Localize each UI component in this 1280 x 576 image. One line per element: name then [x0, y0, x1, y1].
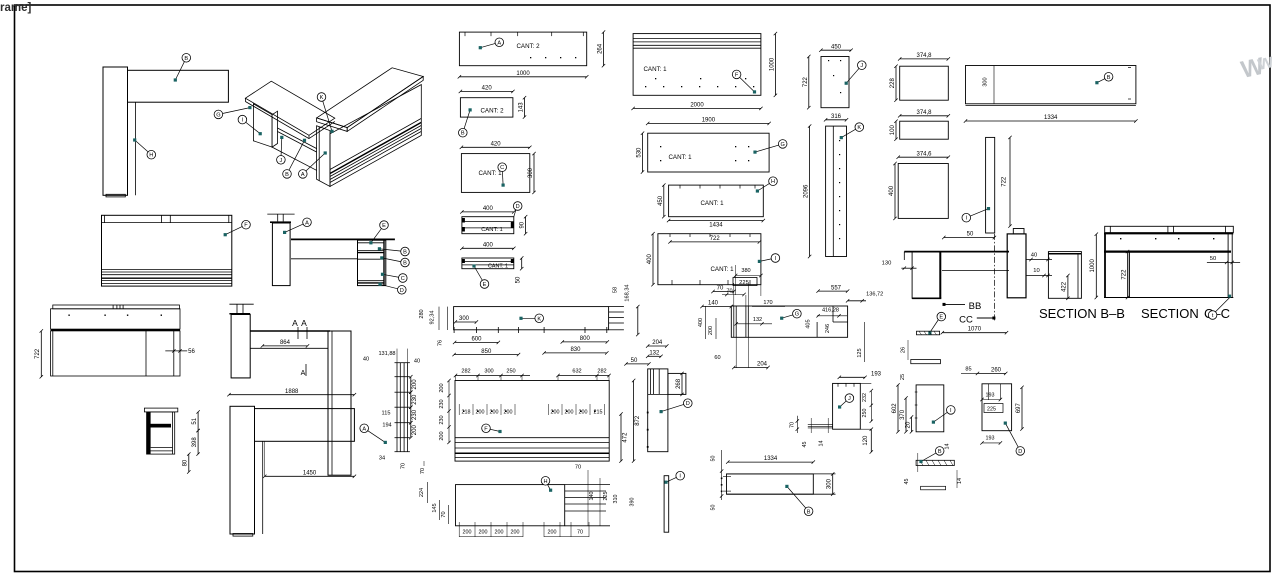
svg-text:200: 200 — [548, 530, 557, 536]
svg-text:850: 850 — [481, 349, 492, 355]
view V8 side view with section A-A — [229, 303, 253, 305]
svg-text:200: 200 — [490, 410, 499, 416]
svg-text:C: C — [500, 165, 504, 171]
svg-text:B: B — [461, 131, 465, 137]
svg-text:100: 100 — [890, 125, 896, 136]
svg-text:1000: 1000 — [769, 57, 775, 71]
svg-text:602: 602 — [892, 403, 898, 414]
svg-text:200: 200 — [495, 530, 504, 536]
svg-text:143: 143 — [519, 102, 525, 113]
svg-text:CANT: 1: CANT: 1 — [478, 170, 502, 177]
view V13 thin strip — [664, 476, 669, 533]
svg-text:420: 420 — [482, 86, 493, 92]
svg-text:B: B — [938, 449, 942, 455]
svg-text:200: 200 — [412, 425, 418, 436]
panel H CANT:1 1434x450 — [669, 185, 764, 217]
thin bar piece below — [917, 331, 940, 335]
svg-text:530: 530 — [637, 147, 643, 158]
svg-text:70: 70 — [401, 463, 407, 469]
svg-text:200: 200 — [412, 379, 418, 390]
svg-text:722: 722 — [35, 348, 41, 359]
view V2 isometric reception desk — [245, 81, 334, 135]
view V5 rear elevation — [53, 305, 180, 309]
panel D CANT:1 400x90 — [462, 211, 514, 213]
panel K 316x2096 — [826, 119, 847, 121]
view V4 side elevation A — [267, 213, 294, 215]
svg-text:A: A — [301, 172, 305, 178]
svg-text:70: 70 — [789, 422, 795, 428]
svg-text:A: A — [497, 40, 501, 46]
svg-text:CANT: 2: CANT: 2 — [516, 43, 540, 50]
svg-text:230: 230 — [439, 415, 445, 424]
svg-text:1888: 1888 — [285, 389, 299, 395]
svg-text:300: 300 — [528, 167, 534, 178]
svg-text:10: 10 — [1033, 268, 1039, 274]
svg-text:697: 697 — [1016, 402, 1022, 413]
svg-text:374,8: 374,8 — [916, 110, 932, 116]
svg-text:K: K — [320, 95, 324, 101]
svg-text:D: D — [686, 401, 690, 407]
svg-text:70: 70 — [575, 465, 581, 471]
panel E CANT:1 400x50 — [462, 247, 514, 249]
svg-text:CC: CC — [959, 315, 973, 326]
svg-text:H: H — [149, 153, 153, 159]
svg-text:130: 130 — [882, 261, 892, 267]
svg-text:230: 230 — [412, 409, 418, 420]
svg-text:132: 132 — [753, 317, 762, 323]
svg-text:90: 90 — [520, 221, 526, 228]
svg-text:1000: 1000 — [516, 71, 530, 77]
panel A CANT:2 1000x264 — [459, 32, 586, 66]
svg-text:370: 370 — [900, 409, 906, 420]
svg-text:872: 872 — [635, 415, 641, 426]
view V9 section A-A piece — [396, 363, 398, 452]
svg-text:115: 115 — [382, 411, 391, 417]
svg-text:K: K — [857, 125, 861, 131]
svg-text:D: D — [1018, 449, 1022, 455]
svg-text:390: 390 — [630, 498, 636, 507]
svg-text:400: 400 — [483, 206, 494, 212]
svg-text:45: 45 — [904, 479, 910, 485]
svg-text:246: 246 — [825, 324, 831, 333]
panel 374,8 x 100 — [900, 115, 949, 117]
svg-text:125: 125 — [857, 348, 863, 357]
svg-text:300: 300 — [484, 369, 493, 375]
svg-text:140: 140 — [708, 301, 719, 307]
svg-text:225: 225 — [987, 407, 996, 413]
svg-text:rame]: rame] — [0, 2, 31, 14]
panel C CANT:1 420x300 — [461, 146, 529, 148]
svg-text:420: 420 — [491, 142, 502, 148]
thin bar piece B with hatch — [916, 460, 954, 465]
piece D rect with 697 dim — [982, 384, 1012, 431]
svg-text:193: 193 — [986, 436, 995, 442]
svg-text:45: 45 — [802, 442, 808, 448]
svg-text:800: 800 — [580, 336, 591, 342]
svg-text:200: 200 — [511, 530, 520, 536]
svg-text:398: 398 — [192, 437, 198, 448]
svg-text:14: 14 — [819, 441, 825, 447]
tall post with 722 dim — [986, 137, 995, 233]
svg-text:230: 230 — [412, 394, 418, 405]
svg-text:250: 250 — [862, 409, 868, 418]
svg-text:170: 170 — [763, 300, 772, 306]
svg-text:416,28: 416,28 — [822, 308, 839, 314]
svg-text:F: F — [484, 426, 488, 432]
svg-text:A: A — [305, 220, 309, 226]
svg-text:282: 282 — [461, 369, 470, 375]
svg-text:422: 422 — [1062, 281, 1068, 292]
view V6 cabinet section detail — [144, 408, 177, 412]
svg-text:25: 25 — [900, 374, 906, 380]
section C-C view — [1105, 226, 1234, 232]
view V1 L-shaped plan top-left — [103, 67, 128, 195]
svg-text:131,88: 131,88 — [378, 351, 395, 357]
svg-text:B: B — [184, 56, 188, 62]
view V15 piece G with many dims — [731, 306, 847, 337]
svg-text:2096: 2096 — [804, 184, 810, 198]
svg-text:G: G — [795, 312, 799, 318]
svg-text:200: 200 — [439, 431, 445, 440]
svg-text:C: C — [401, 276, 405, 282]
svg-text:B: B — [807, 509, 811, 515]
svg-text:B: B — [1107, 75, 1111, 81]
svg-text:J: J — [860, 63, 863, 69]
view V10 long panel K — [454, 307, 609, 330]
svg-text:450: 450 — [831, 44, 842, 50]
svg-text:400: 400 — [889, 185, 895, 196]
svg-text:50: 50 — [1210, 256, 1216, 262]
piece J with 193 232 250 dims — [833, 383, 861, 429]
svg-text:14: 14 — [944, 444, 950, 450]
svg-text:1334: 1334 — [1044, 115, 1058, 121]
svg-text:1434: 1434 — [709, 223, 723, 229]
svg-text:200: 200 — [504, 410, 513, 416]
view V12 panel H bottom — [456, 485, 565, 526]
svg-text:SECTION: SECTION — [1141, 306, 1199, 321]
svg-text:268: 268 — [676, 378, 682, 389]
svg-text:300: 300 — [827, 478, 833, 489]
svg-text:145: 145 — [432, 503, 438, 512]
view V11 wide panel F — [455, 381, 609, 462]
svg-text:CANT: 1: CANT: 1 — [700, 200, 724, 207]
svg-text:14: 14 — [957, 478, 963, 484]
svg-text:85: 85 — [965, 367, 971, 373]
svg-text:193: 193 — [871, 372, 882, 378]
svg-text:132: 132 — [649, 351, 660, 357]
svg-text:40: 40 — [1031, 253, 1037, 259]
svg-text:200: 200 — [476, 410, 485, 416]
svg-text:SECTION B–B: SECTION B–B — [1039, 306, 1125, 321]
svg-text:40: 40 — [414, 358, 420, 364]
svg-text:200: 200 — [479, 530, 488, 536]
svg-text:70: 70 — [577, 530, 583, 536]
svg-text:310: 310 — [613, 495, 619, 504]
svg-text:CANT: 1: CANT: 1 — [481, 227, 503, 233]
svg-text:600: 600 — [471, 337, 482, 343]
svg-text:34: 34 — [379, 456, 385, 462]
svg-text:194: 194 — [382, 423, 391, 429]
piece I rect with 370/20 dims — [916, 385, 944, 432]
svg-text:316: 316 — [831, 114, 842, 120]
svg-text:250: 250 — [506, 369, 515, 375]
svg-text:830: 830 — [570, 347, 581, 353]
svg-text:50: 50 — [710, 505, 716, 511]
svg-text:BB: BB — [969, 301, 982, 312]
svg-text:200: 200 — [565, 410, 574, 416]
svg-text:400: 400 — [698, 318, 704, 327]
svg-text:864: 864 — [280, 340, 291, 346]
svg-text:2000: 2000 — [690, 103, 704, 109]
view V7 large L plan — [229, 394, 354, 396]
svg-text:282: 282 — [597, 369, 606, 375]
svg-text:472: 472 — [622, 432, 628, 443]
view V14 tall piece D — [648, 345, 667, 347]
svg-text:168,34: 168,34 — [625, 284, 631, 301]
svg-text:300: 300 — [983, 77, 989, 86]
svg-text:120: 120 — [863, 435, 869, 446]
svg-text:A: A — [301, 318, 307, 328]
svg-text:280: 280 — [419, 309, 425, 318]
svg-text:140: 140 — [589, 492, 595, 501]
svg-text:722: 722 — [710, 236, 721, 242]
svg-text:58: 58 — [613, 287, 619, 293]
svg-text:260: 260 — [991, 368, 1002, 374]
svg-text:E: E — [382, 223, 386, 229]
svg-text:136,72: 136,72 — [866, 292, 883, 298]
svg-text:50: 50 — [631, 358, 638, 364]
svg-text:200: 200 — [439, 383, 445, 392]
svg-text:50: 50 — [710, 456, 716, 462]
svg-text:200: 200 — [551, 410, 560, 416]
svg-text:400: 400 — [647, 254, 653, 265]
svg-text:722: 722 — [803, 76, 809, 87]
svg-text:20: 20 — [906, 421, 912, 428]
svg-text:200: 200 — [708, 326, 714, 335]
panel 374,6 x 400 — [898, 156, 948, 158]
svg-text:204: 204 — [757, 362, 768, 368]
svg-text:G: G — [781, 142, 785, 148]
svg-text:380: 380 — [741, 268, 750, 274]
svg-text:70: 70 — [717, 286, 724, 292]
panel 374,8 x 228 — [900, 58, 949, 60]
svg-text:632: 632 — [572, 369, 581, 375]
svg-text:70: 70 — [420, 468, 426, 474]
svg-text:215: 215 — [594, 410, 603, 416]
section B-B small view — [1048, 252, 1081, 299]
svg-text:B: B — [403, 261, 407, 267]
svg-text:450: 450 — [658, 195, 664, 206]
svg-text:D: D — [400, 288, 404, 294]
panel 1334x300 bottom — [728, 461, 814, 463]
svg-text:40: 40 — [363, 356, 369, 362]
svg-text:A: A — [362, 426, 366, 432]
svg-text:722: 722 — [1121, 269, 1127, 280]
svg-text:1900: 1900 — [702, 118, 716, 124]
svg-text:200: 200 — [579, 410, 588, 416]
svg-text:225: 225 — [603, 492, 609, 501]
svg-text:400: 400 — [483, 243, 494, 249]
svg-text:K: K — [537, 316, 541, 322]
svg-text:H: H — [543, 479, 547, 485]
panel F CANT:1 2000x1000 — [633, 34, 761, 96]
svg-text:374,6: 374,6 — [916, 151, 932, 157]
svg-text:1070: 1070 — [968, 327, 982, 333]
svg-text:50: 50 — [516, 276, 522, 283]
svg-text:60: 60 — [714, 355, 720, 361]
svg-text:230: 230 — [439, 399, 445, 408]
svg-text:26: 26 — [901, 347, 907, 353]
svg-text:193: 193 — [986, 393, 995, 399]
panel G CANT:1 1900x530 — [648, 122, 769, 124]
svg-text:200: 200 — [463, 530, 472, 536]
svg-text:E: E — [483, 282, 487, 288]
svg-text:76: 76 — [437, 340, 443, 346]
svg-text:A: A — [292, 318, 298, 328]
panel B 1334x300 top right — [966, 66, 1136, 104]
svg-text:557: 557 — [831, 285, 842, 291]
svg-text:92,34: 92,34 — [429, 311, 435, 325]
svg-text:A: A — [301, 370, 306, 377]
svg-text:F: F — [735, 72, 739, 78]
svg-text:H: H — [771, 179, 775, 185]
svg-text:51: 51 — [192, 417, 198, 424]
svg-text:CANT: 2: CANT: 2 — [480, 108, 504, 115]
svg-text:1450: 1450 — [303, 471, 317, 477]
svg-text:218: 218 — [462, 410, 471, 416]
plan section detail with B-B C-C cut marks — [904, 251, 1009, 253]
svg-text:CANT: 1: CANT: 1 — [488, 264, 508, 270]
svg-text:1334: 1334 — [764, 456, 778, 462]
svg-text:232: 232 — [862, 393, 868, 402]
svg-text:722: 722 — [1002, 176, 1008, 187]
svg-text:204: 204 — [652, 340, 663, 346]
svg-text:405: 405 — [805, 319, 811, 328]
svg-text:224: 224 — [419, 488, 425, 497]
svg-text:1000: 1000 — [1090, 259, 1096, 273]
svg-text:80: 80 — [183, 459, 189, 466]
svg-text:300: 300 — [459, 316, 470, 322]
svg-text:B: B — [403, 250, 407, 256]
svg-text:E: E — [939, 315, 943, 321]
svg-text:228: 228 — [890, 78, 896, 89]
panel J 450x722 — [821, 49, 851, 51]
svg-text:B: B — [285, 172, 289, 178]
svg-text:56: 56 — [188, 349, 195, 355]
svg-text:CANT: 1: CANT: 1 — [668, 154, 692, 161]
svg-text:G: G — [216, 112, 220, 118]
svg-text:374,8: 374,8 — [916, 53, 932, 59]
svg-text:D: D — [516, 204, 520, 210]
panel I CANT:1 722x400 — [658, 234, 761, 285]
svg-text:CANT: 1: CANT: 1 — [643, 66, 667, 73]
svg-text:J: J — [280, 158, 283, 164]
svg-text:50: 50 — [967, 232, 974, 238]
svg-text:264: 264 — [598, 43, 604, 54]
svg-text:70: 70 — [441, 511, 447, 517]
panel B CANT:2 420x143 — [460, 90, 513, 92]
view V3 front elevation F — [102, 215, 232, 286]
svg-text:J: J — [848, 396, 851, 402]
svg-text:F: F — [244, 223, 248, 229]
svg-text:CANT: 1: CANT: 1 — [710, 266, 734, 273]
